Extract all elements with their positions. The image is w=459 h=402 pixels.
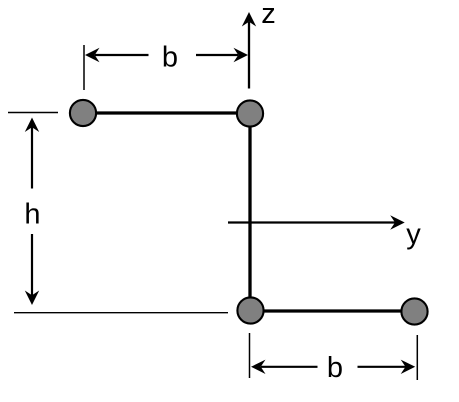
node bottom-left [237,297,263,323]
z axis [242,0,276,88]
svg-text:z: z [261,0,276,30]
dimension h left [8,113,228,313]
node top-right [237,100,263,126]
svg-text:y: y [406,219,421,251]
dimension b top [84,42,248,91]
y axis [228,215,421,250]
node bottom-right [401,298,427,324]
wire web [248,113,251,311]
wire top flange [83,111,250,114]
svg-text:b: b [162,42,178,74]
svg-text:h: h [24,199,40,231]
node top-left [70,100,96,126]
dimension b bottom [250,333,418,384]
svg-text:b: b [327,352,343,384]
wire bottom flange [250,309,415,312]
